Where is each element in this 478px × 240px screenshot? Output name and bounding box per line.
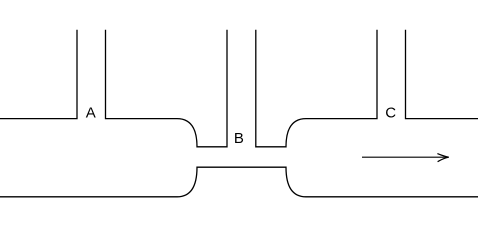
wire tube B right wall + throat top + right diverge curve + tube C left wall bbox=[256, 30, 377, 147]
svg-text:C: C bbox=[385, 105, 396, 122]
svg-text:B: B bbox=[234, 130, 244, 147]
wire tube C right wall + top wall right bbox=[406, 30, 478, 119]
wire bottom wall with throat bump bbox=[0, 167, 478, 197]
svg-text:A: A bbox=[86, 105, 96, 122]
wire tube A right wall + top wall + left converge curve + tube B left wall bbox=[106, 30, 228, 147]
wire flow arrow shaft bbox=[362, 156, 448, 158]
flow arrow head bbox=[437, 154, 448, 162]
wire top wall left + tube A left wall bbox=[0, 30, 77, 119]
